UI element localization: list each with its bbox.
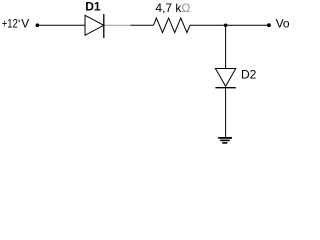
svg-text:4,7 kΩ: 4,7 kΩ — [155, 1, 190, 15]
svg-text:+12: +12 — [2, 18, 18, 31]
svg-text:D2: D2 — [241, 68, 257, 82]
svg-text:V: V — [21, 17, 29, 31]
svg-text:D1: D1 — [85, 0, 101, 14]
svg-text:Vo: Vo — [276, 17, 290, 31]
